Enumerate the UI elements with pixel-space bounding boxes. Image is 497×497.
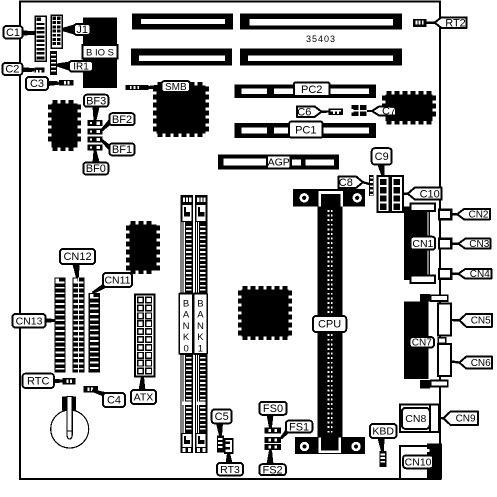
svg-text:C5: C5 (215, 411, 229, 423)
svg-text:BF0: BF0 (86, 163, 106, 175)
svg-text:A: A (197, 310, 204, 321)
svg-text:1: 1 (198, 343, 203, 354)
svg-text:CN4: CN4 (470, 269, 490, 280)
svg-text:CN8: CN8 (405, 413, 426, 425)
svg-text:BF1: BF1 (112, 144, 132, 156)
svg-text:CN2: CN2 (468, 210, 488, 221)
svg-text:C3: C3 (30, 78, 44, 90)
svg-text:PC2: PC2 (301, 84, 322, 96)
svg-text:0: 0 (183, 343, 188, 354)
svg-text:N: N (183, 321, 190, 332)
svg-text:B IO S: B IO S (86, 47, 114, 58)
svg-text:CN11: CN11 (104, 275, 130, 287)
svg-text:C10: C10 (420, 188, 440, 200)
svg-text:KBD: KBD (372, 426, 394, 438)
svg-text:RTC: RTC (27, 376, 49, 388)
svg-text:C2: C2 (5, 64, 19, 76)
svg-text:CN13: CN13 (16, 315, 43, 327)
svg-text:K: K (197, 332, 204, 343)
svg-text:IR1: IR1 (73, 62, 89, 73)
svg-text:CN12: CN12 (63, 251, 91, 263)
svg-text:BF3: BF3 (86, 95, 106, 107)
svg-text:BF2: BF2 (112, 114, 132, 126)
svg-text:CN10: CN10 (405, 456, 432, 468)
svg-text:CN9: CN9 (456, 414, 476, 425)
svg-text:FS0: FS0 (263, 403, 283, 415)
svg-text:C4: C4 (107, 395, 121, 407)
svg-text:C6: C6 (297, 106, 311, 118)
svg-text:C9: C9 (375, 151, 389, 163)
svg-text:CPU: CPU (318, 319, 341, 331)
svg-text:CN5: CN5 (471, 316, 491, 327)
svg-text:C8: C8 (339, 177, 353, 189)
svg-text:A: A (183, 310, 190, 321)
svg-text:B: B (197, 299, 203, 310)
svg-text:RT3: RT3 (220, 464, 240, 476)
svg-text:CN7: CN7 (412, 338, 432, 349)
svg-text:CN6: CN6 (471, 358, 491, 369)
svg-text:J1: J1 (76, 24, 88, 36)
svg-text:RT2: RT2 (445, 17, 466, 29)
svg-text:SMB: SMB (165, 82, 187, 93)
svg-text:C1: C1 (6, 27, 20, 39)
svg-text:PC1: PC1 (295, 124, 316, 136)
svg-text:AGP: AGP (268, 157, 290, 169)
svg-text:B: B (183, 299, 189, 310)
svg-text:FS2: FS2 (263, 464, 283, 476)
svg-text:C7: C7 (382, 106, 396, 118)
svg-text:CN1: CN1 (412, 238, 433, 250)
svg-text:CN3: CN3 (469, 239, 489, 250)
svg-text:FS1: FS1 (289, 421, 309, 433)
svg-text:K: K (183, 332, 190, 343)
svg-text:N: N (197, 321, 204, 332)
svg-text:ATX: ATX (134, 392, 154, 404)
svg-text:35403: 35403 (306, 34, 336, 44)
